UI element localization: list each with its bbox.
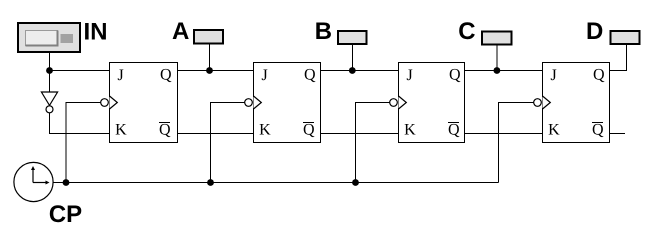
label B — [316, 23, 331, 40]
wire IN to junction — [49, 53, 51, 71]
junction node A — [206, 67, 213, 74]
junction rail riser3 — [352, 179, 359, 186]
wire Qbar2 to K3 — [321, 133, 399, 135]
wire Qbar4 stub — [610, 133, 626, 135]
wire inverter output to K1 — [50, 113, 110, 134]
label C — [459, 22, 475, 39]
wire Q2 to J3 — [321, 70, 399, 72]
probe A — [194, 30, 223, 44]
wire probe B riser — [351, 45, 353, 71]
wire clock riser FF2 — [211, 103, 246, 183]
wire Q1 to J2 — [178, 70, 254, 72]
junction rail riser2 — [207, 179, 214, 186]
wire Qbar3 to K4 — [465, 133, 543, 135]
junction node C — [494, 67, 501, 74]
flip-flop FF3 — [390, 63, 465, 143]
wire clock rail — [66, 182, 499, 184]
junction rail riser1 — [63, 179, 70, 186]
wire probe C riser — [496, 45, 498, 71]
wire probe A riser — [209, 44, 211, 71]
label D — [588, 23, 603, 40]
flip-flop FF2 — [245, 63, 321, 143]
label A — [173, 23, 189, 40]
wire junction to J1 — [50, 70, 110, 72]
probe C — [482, 32, 512, 45]
inverter U1 — [41, 92, 57, 113]
flip-flop FF1 — [101, 63, 178, 143]
probe B — [338, 31, 367, 44]
wire junction to inverter — [49, 71, 51, 93]
wire clock riser FF4 — [499, 103, 535, 183]
wire clock riser FF1 — [66, 103, 101, 183]
label IN — [85, 23, 106, 40]
wire clock riser FF3 — [356, 103, 391, 183]
switch IN — [18, 23, 80, 52]
wire Q3 to J4 — [465, 70, 543, 72]
wire Qbar1 to K2 — [178, 133, 254, 135]
junction node B — [349, 67, 356, 74]
probe D — [611, 31, 640, 44]
junction IN node — [46, 67, 53, 74]
wire Q4 to probe D — [610, 45, 627, 71]
flip-flop FF4 — [534, 63, 610, 143]
clock CP — [14, 162, 53, 201]
wire clock to rail — [53, 182, 66, 184]
label CP — [50, 205, 82, 222]
